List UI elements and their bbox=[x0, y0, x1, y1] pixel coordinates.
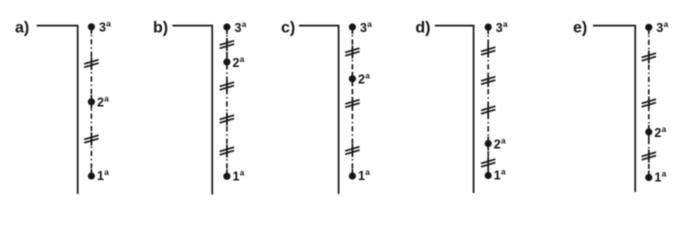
variant b node 1a dot bbox=[223, 173, 230, 180]
variant a node 1a dot bbox=[88, 172, 95, 179]
variant b node 1a label bbox=[233, 168, 245, 183]
variant c node 3a label bbox=[360, 20, 372, 35]
svg-text:a): a) bbox=[15, 20, 29, 37]
variant a node 2a label bbox=[97, 95, 109, 110]
variant e node 3a dot bbox=[645, 24, 652, 31]
svg-text:d): d) bbox=[415, 20, 430, 37]
variant c interval mark 2 bbox=[345, 97, 359, 110]
variant e interval mark 1 bbox=[642, 51, 656, 64]
variant a node 3a label bbox=[99, 20, 111, 35]
variant b interval mark 4 bbox=[220, 145, 234, 158]
variant e interval mark 2 bbox=[642, 97, 656, 110]
variant c node 1a dot bbox=[349, 172, 356, 179]
variant d node 3a label bbox=[496, 20, 508, 35]
variant d interval mark 4 bbox=[481, 157, 495, 170]
variant e interval mark 3 bbox=[642, 150, 656, 163]
variant b node 2a label bbox=[233, 55, 245, 70]
svg-text:e): e) bbox=[573, 20, 587, 37]
variant d bracket bbox=[435, 26, 474, 193]
variant c interval mark 3 bbox=[345, 144, 359, 157]
variant c interval mark 1 bbox=[345, 46, 359, 59]
variant b interval mark 3 bbox=[220, 113, 234, 126]
variant c node 1a label bbox=[358, 168, 370, 183]
svg-text:c): c) bbox=[281, 20, 295, 37]
variant a node 2a dot bbox=[88, 98, 95, 105]
variant d interval mark 2 bbox=[481, 74, 495, 87]
variant e label bbox=[573, 20, 587, 37]
variant c label bbox=[281, 20, 295, 37]
variant d node 2a dot bbox=[485, 140, 492, 147]
variant b node 3a label bbox=[235, 20, 247, 35]
variant b interval mark 2 bbox=[220, 80, 234, 93]
variant d string line bbox=[487, 27, 489, 175]
variant e string line bbox=[648, 27, 650, 177]
variant b interval mark 1 bbox=[220, 38, 234, 51]
variant b string line bbox=[226, 27, 228, 176]
variant b node 3a dot bbox=[223, 23, 230, 30]
variant a string line bbox=[90, 27, 92, 176]
variant d interval mark 3 bbox=[481, 104, 495, 117]
variant e node 2a dot bbox=[645, 128, 652, 135]
variant c node 3a dot bbox=[349, 23, 356, 30]
variant c string line bbox=[351, 27, 353, 176]
variant d interval mark 1 bbox=[481, 45, 495, 58]
variant a interval mark 1 bbox=[84, 57, 98, 70]
variant c bracket bbox=[299, 26, 339, 194]
variant a node 3a dot bbox=[88, 23, 95, 30]
variant b bracket bbox=[172, 26, 212, 195]
svg-text:b): b) bbox=[153, 20, 168, 37]
variant a node 1a label bbox=[97, 168, 109, 183]
variant d label bbox=[415, 20, 430, 37]
variant d node 2a label bbox=[494, 136, 506, 151]
variant d node 1a dot bbox=[485, 172, 492, 179]
variant a label bbox=[15, 20, 29, 37]
variant c node 2a label bbox=[358, 72, 370, 87]
variant e node 1a dot bbox=[645, 174, 652, 181]
variant e node 2a label bbox=[654, 125, 666, 140]
variant c node 2a dot bbox=[349, 75, 356, 82]
variant e bracket bbox=[593, 26, 635, 192]
variant b node 2a dot bbox=[223, 58, 230, 65]
variant a bracket bbox=[37, 26, 78, 194]
variant d node 3a dot bbox=[485, 24, 492, 31]
variant a interval mark 2 bbox=[84, 133, 98, 146]
variant e node 3a label bbox=[656, 20, 668, 35]
variant d node 1a label bbox=[494, 168, 506, 183]
variant b label bbox=[153, 20, 168, 37]
variant e node 1a label bbox=[654, 170, 666, 185]
